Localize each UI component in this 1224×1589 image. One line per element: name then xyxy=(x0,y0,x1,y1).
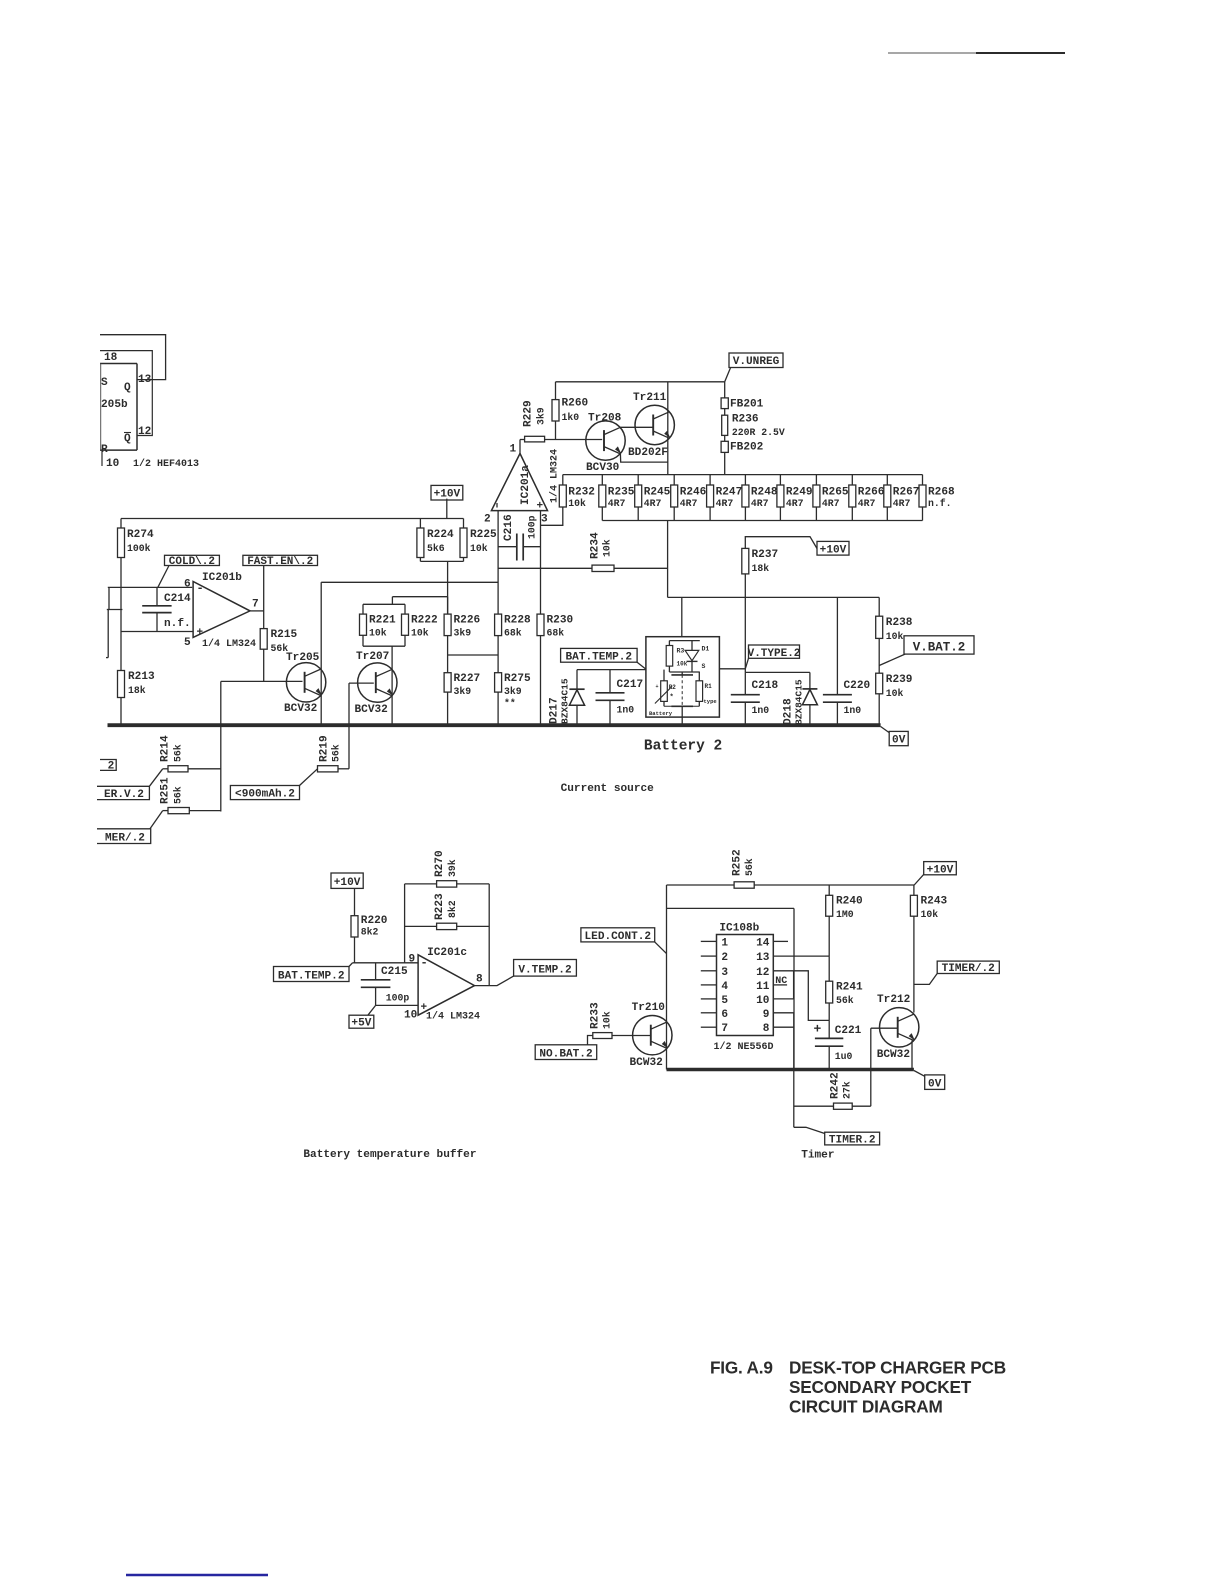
op-amp IC201b (1/4 LM324) xyxy=(184,572,259,650)
resistor R246 xyxy=(671,475,707,521)
resistor R239 xyxy=(876,673,913,724)
svg-text:R236: R236 xyxy=(732,414,759,426)
transistor Tr210 xyxy=(630,1002,673,1069)
svg-text:+10V: +10V xyxy=(334,877,361,889)
wire pin3 lead down to R230 xyxy=(540,511,542,614)
svg-text:1n0: 1n0 xyxy=(752,705,770,716)
svg-text:3k9: 3k9 xyxy=(454,686,472,697)
svg-text:TIMER/.2: TIMER/.2 xyxy=(942,963,995,975)
resistor R238 xyxy=(876,597,913,642)
svg-text:8: 8 xyxy=(763,1023,770,1035)
svg-text:R251: R251 xyxy=(160,777,172,804)
power +10V buffer xyxy=(331,873,363,916)
wire ladder bottom rail xyxy=(602,520,922,522)
svg-text:**: ** xyxy=(504,698,516,709)
svg-text:R247: R247 xyxy=(716,487,743,499)
wire pin9 stub xyxy=(773,1012,794,1014)
svg-text:5: 5 xyxy=(184,637,191,649)
svg-text:10: 10 xyxy=(404,1010,418,1022)
svg-text:1M0: 1M0 xyxy=(836,909,854,920)
svg-text:R226: R226 xyxy=(454,615,481,627)
net label V.BAT.2 xyxy=(879,636,974,666)
svg-text:R2: R2 xyxy=(669,684,677,691)
wire V.TYPE net xyxy=(719,669,810,673)
resistor R252 xyxy=(732,849,756,888)
svg-text:56k: 56k xyxy=(744,858,755,876)
svg-text:18k: 18k xyxy=(752,563,770,574)
wire V.UNREG top rail xyxy=(556,381,725,383)
svg-text:R228: R228 xyxy=(504,615,531,627)
svg-text:Battery temperature buffer: Battery temperature buffer xyxy=(303,1149,476,1161)
svg-text:18k: 18k xyxy=(128,685,146,696)
net label BAT.TEMP.2 buffer xyxy=(274,963,353,983)
svg-text:BCV30: BCV30 xyxy=(586,462,620,474)
svg-text:5k6: 5k6 xyxy=(427,543,445,554)
wire IC201b output xyxy=(250,610,264,612)
svg-text:FB202: FB202 xyxy=(730,442,763,454)
svg-text:8k2: 8k2 xyxy=(361,927,379,938)
svg-text:R260: R260 xyxy=(562,398,589,410)
net label MER/.2 (clipped) xyxy=(97,829,151,845)
wire R234 net xyxy=(498,567,667,569)
svg-text:4R7: 4R7 xyxy=(644,498,662,509)
svg-text:R249: R249 xyxy=(786,487,813,499)
svg-text:R3: R3 xyxy=(677,648,685,655)
svg-text:R220: R220 xyxy=(361,915,388,927)
svg-text:Tr212: Tr212 xyxy=(877,994,910,1006)
svg-text:V.TYPE.2: V.TYPE.2 xyxy=(748,648,801,660)
svg-text:68k: 68k xyxy=(504,628,522,639)
wire timer left rail xyxy=(666,885,668,1070)
svg-text:10k: 10k xyxy=(677,661,688,668)
svg-text:R242: R242 xyxy=(830,1072,842,1099)
wire mid horizontal rail xyxy=(668,596,880,598)
resistor R275 xyxy=(495,655,531,724)
svg-text:1/2 HEF4013: 1/2 HEF4013 xyxy=(133,458,199,470)
wire 0V bus (Battery 2) xyxy=(108,723,881,727)
power +5V xyxy=(349,1005,376,1029)
svg-text:R219: R219 xyxy=(319,735,331,762)
svg-text:S: S xyxy=(101,377,108,389)
ferrite bead FB202 xyxy=(721,435,763,474)
capacitor C214 xyxy=(142,587,191,631)
svg-text:n.f.: n.f. xyxy=(928,498,952,509)
svg-text:1/4 LM324: 1/4 LM324 xyxy=(426,1011,480,1023)
svg-text:4R7: 4R7 xyxy=(822,498,840,509)
svg-text:1k0: 1k0 xyxy=(562,412,580,423)
capacitor C217 xyxy=(596,670,644,724)
svg-text:10k: 10k xyxy=(470,543,488,554)
svg-text:Battery 2: Battery 2 xyxy=(644,739,722,755)
svg-text:Timer: Timer xyxy=(801,1150,834,1162)
svg-text:R213: R213 xyxy=(128,671,155,683)
IC108b outline box xyxy=(667,908,795,1069)
svg-text:3k9: 3k9 xyxy=(454,628,472,639)
resistor R230 xyxy=(537,614,573,724)
svg-text:68k: 68k xyxy=(547,628,565,639)
wire pin13 to R240/R241 node xyxy=(773,955,829,957)
wire R237 to V.TYPE junction xyxy=(744,597,746,668)
svg-text:-: - xyxy=(197,582,204,596)
power +10V timer xyxy=(914,862,956,885)
svg-text:C215: C215 xyxy=(381,966,408,978)
svg-text:100k: 100k xyxy=(127,543,151,554)
svg-text:R227: R227 xyxy=(454,673,481,685)
svg-text:10k: 10k xyxy=(921,909,939,920)
svg-text:4R7: 4R7 xyxy=(893,498,911,509)
thermistor R2 (battery internal) xyxy=(655,670,676,707)
op-amp IC201c (1/4 LM324) xyxy=(404,947,483,1023)
resistor R234 xyxy=(590,532,615,571)
svg-text:Current source: Current source xyxy=(561,783,655,795)
resistor R235 xyxy=(599,475,635,521)
resistor R237 xyxy=(742,537,817,598)
svg-text:R1: R1 xyxy=(705,683,713,690)
wire R221/R222 bottom rail xyxy=(363,645,405,647)
svg-text:C214: C214 xyxy=(164,593,191,605)
svg-text:BCV32: BCV32 xyxy=(355,704,388,716)
zener diode D218 (BZX84C15) xyxy=(783,672,818,725)
svg-text:4R7: 4R7 xyxy=(751,498,769,509)
svg-text:Q: Q xyxy=(124,382,131,394)
svg-text:TIMER.2: TIMER.2 xyxy=(829,1134,876,1146)
svg-text:10k: 10k xyxy=(886,688,904,699)
svg-text:IC108b: IC108b xyxy=(719,923,759,935)
resistor R260 xyxy=(552,382,588,440)
svg-text:type: type xyxy=(704,698,718,705)
wire pin10 input xyxy=(376,1004,419,1006)
resistor R233 xyxy=(588,1002,651,1045)
svg-text:8k2: 8k2 xyxy=(447,900,458,918)
wire pin6 input xyxy=(108,586,192,588)
wire R214/R251 junction vertical xyxy=(220,725,222,811)
svg-text:9: 9 xyxy=(763,1009,770,1021)
svg-text:BD202F: BD202F xyxy=(628,447,668,459)
svg-text:R267: R267 xyxy=(893,487,920,499)
wire R274 down to IC201b input xyxy=(120,558,122,671)
svg-text:2: 2 xyxy=(484,514,491,526)
svg-text:Tr210: Tr210 xyxy=(632,1002,666,1014)
svg-text:56k: 56k xyxy=(173,786,184,804)
wire pin14 stub xyxy=(773,940,788,942)
svg-text:S: S xyxy=(702,663,706,670)
resistor R247 xyxy=(707,475,743,521)
svg-text:NC: NC xyxy=(775,976,787,987)
svg-text:R274: R274 xyxy=(127,529,154,541)
resistor R221 xyxy=(360,604,396,646)
svg-text:4R7: 4R7 xyxy=(858,498,876,509)
svg-text:+: + xyxy=(814,1022,822,1037)
svg-text:FAST.EN\.2: FAST.EN\.2 xyxy=(247,556,313,568)
wire Tr207 collector/emitter vertical xyxy=(391,646,393,724)
svg-text:4R7: 4R7 xyxy=(716,498,734,509)
resistor R243 xyxy=(910,885,947,920)
wire Tr211 collector/emitter vertical xyxy=(667,382,669,475)
svg-text:BCW32: BCW32 xyxy=(630,1057,663,1069)
svg-text:R266: R266 xyxy=(858,487,885,499)
svg-text:1u0: 1u0 xyxy=(835,1051,853,1062)
resistor R251 xyxy=(150,777,221,829)
resistor R226 xyxy=(444,597,480,655)
svg-text:R234: R234 xyxy=(590,532,602,559)
svg-text:3: 3 xyxy=(541,514,548,526)
svg-text:R243: R243 xyxy=(921,896,948,908)
wire IC201c output xyxy=(475,976,514,986)
svg-text:9: 9 xyxy=(409,954,416,966)
svg-text:R239: R239 xyxy=(886,674,913,686)
net label V.TYPE.2 xyxy=(745,645,800,669)
wire R238-R239 link xyxy=(878,638,880,673)
svg-text:3k9: 3k9 xyxy=(536,407,547,425)
resistor R225 xyxy=(460,519,497,562)
resistor R241 xyxy=(826,956,863,1020)
IC IC108b (1/2 NE556D) xyxy=(701,923,774,1054)
battery cell symbol xyxy=(671,672,693,706)
wire ladder top rail xyxy=(563,474,923,476)
transistor Tr205 xyxy=(284,652,326,715)
svg-text:56k: 56k xyxy=(173,744,184,762)
svg-text:100p: 100p xyxy=(386,993,410,1004)
wire pin5 input xyxy=(121,631,193,633)
net label V.UNREG xyxy=(725,353,783,382)
svg-text:56k: 56k xyxy=(836,995,854,1006)
svg-text:SECONDARY POCKET: SECONDARY POCKET xyxy=(789,1377,972,1397)
resistor R224 xyxy=(417,519,454,562)
svg-text:Tr208: Tr208 xyxy=(588,413,622,425)
wire feedback right vertical xyxy=(488,884,490,986)
svg-text:4R7: 4R7 xyxy=(680,498,698,509)
svg-text:R245: R245 xyxy=(644,487,671,499)
wire Tr207 base xyxy=(349,683,374,769)
svg-text:BAT.TEMP.2: BAT.TEMP.2 xyxy=(566,651,633,663)
svg-text:14: 14 xyxy=(756,937,770,949)
net label FAST.EN\.2 xyxy=(243,555,318,611)
wire pin10 to pin12 net xyxy=(773,971,793,999)
svg-text:R265: R265 xyxy=(822,487,849,499)
svg-text:R270: R270 xyxy=(434,850,446,877)
resistor R249 xyxy=(777,475,813,521)
svg-text:V.TEMP.2: V.TEMP.2 xyxy=(518,965,571,977)
svg-text:11: 11 xyxy=(756,981,770,993)
resistor R242 xyxy=(794,1072,871,1109)
svg-text:FB201: FB201 xyxy=(730,399,764,411)
resistor R1 (battery internal) xyxy=(696,672,717,706)
svg-text:12: 12 xyxy=(138,426,151,438)
svg-text:5: 5 xyxy=(721,995,728,1007)
resistor R222 xyxy=(402,604,438,646)
net label TIMER/.2 xyxy=(914,961,999,984)
resistor R267 xyxy=(884,475,920,521)
svg-text:10k: 10k xyxy=(886,631,904,642)
svg-text:Battery: Battery xyxy=(649,710,673,717)
resistor R219 xyxy=(318,735,350,772)
wire battery temp net xyxy=(577,669,664,671)
wire Tr208 emitter xyxy=(620,454,667,462)
wire pin9/8 vertical to R242 and TIMER.2 xyxy=(793,1013,795,1128)
svg-text:8: 8 xyxy=(476,974,483,986)
power +10V mid xyxy=(817,541,849,556)
resistor R215 xyxy=(260,611,297,681)
resistor R245 xyxy=(635,475,671,521)
capacitor C220 xyxy=(823,597,871,724)
wire left edge jog xyxy=(106,587,122,657)
net label ER.V.2 (clipped) xyxy=(97,786,149,801)
wire R243 to Tr212 collector xyxy=(913,916,915,1012)
resistor R220 xyxy=(351,915,388,963)
svg-text:R230: R230 xyxy=(547,615,574,627)
page artifact line top-right xyxy=(888,52,976,54)
svg-text:39k: 39k xyxy=(447,859,458,877)
svg-text:1/4 LM324: 1/4 LM324 xyxy=(202,638,256,650)
svg-text:1n0: 1n0 xyxy=(617,705,635,716)
svg-text:FIG. A.9: FIG. A.9 xyxy=(710,1358,773,1378)
svg-text:12: 12 xyxy=(756,967,769,979)
wire pin8 stub xyxy=(773,1026,794,1028)
svg-text:R223: R223 xyxy=(434,893,446,920)
wire Tr212 emitter to bus xyxy=(911,1041,913,1070)
svg-text:R222: R222 xyxy=(411,615,438,627)
svg-text:n.f.: n.f. xyxy=(164,618,191,630)
wire feedback to R228 node xyxy=(321,581,498,583)
resistor R228 xyxy=(495,614,531,655)
flip-flop IC205b (1/2 HEF4013, clipped at page edge) xyxy=(100,352,199,470)
svg-text:1/2 NE556D: 1/2 NE556D xyxy=(714,1041,774,1053)
resistor R214 xyxy=(149,735,220,786)
resistor R265 xyxy=(813,475,849,521)
wire pin9 input xyxy=(353,962,419,964)
wire pin11 NC stub xyxy=(773,976,787,987)
svg-text:V.BAT.2: V.BAT.2 xyxy=(913,641,966,655)
svg-text:4R7: 4R7 xyxy=(786,498,804,509)
svg-text:10k: 10k xyxy=(602,539,613,557)
net label TIMER.2 xyxy=(794,1127,880,1146)
svg-text:10: 10 xyxy=(106,458,120,470)
wire R226/R228 bottom link xyxy=(448,654,499,656)
svg-text:R240: R240 xyxy=(836,896,863,908)
svg-text:56k: 56k xyxy=(331,744,342,762)
svg-text:R246: R246 xyxy=(680,487,707,499)
transistor Tr211 xyxy=(628,392,674,459)
svg-text:R275: R275 xyxy=(504,673,531,685)
svg-text:R241: R241 xyxy=(836,982,863,994)
transistor Tr212 xyxy=(877,994,919,1061)
svg-text:IC201c: IC201c xyxy=(427,947,467,959)
wire timer +10V rail xyxy=(667,884,915,886)
resistor R232 xyxy=(559,475,595,509)
wire feedback left vertical xyxy=(404,884,406,963)
svg-text:IC201b: IC201b xyxy=(202,572,242,584)
svg-text:10k: 10k xyxy=(411,628,429,639)
wire R221/R222 top rail xyxy=(363,603,405,605)
wire battery top lead xyxy=(681,597,683,640)
net label BAT.TEMP.2 xyxy=(561,648,647,669)
net label NO.BAT.2 xyxy=(535,1045,597,1061)
svg-text:BCV32: BCV32 xyxy=(284,703,317,715)
svg-text:R237: R237 xyxy=(752,549,779,561)
svg-text:BCW32: BCW32 xyxy=(877,1049,910,1061)
svg-text:Q: Q xyxy=(124,433,131,445)
svg-text:R268: R268 xyxy=(928,487,955,499)
svg-text:CIRCUIT DIAGRAM: CIRCUIT DIAGRAM xyxy=(789,1397,943,1417)
svg-text:27k: 27k xyxy=(842,1081,853,1099)
svg-text:BZX84C15: BZX84C15 xyxy=(560,678,571,724)
svg-text:0V: 0V xyxy=(892,735,906,747)
svg-text:DESK-TOP CHARGER PCB: DESK-TOP CHARGER PCB xyxy=(789,1358,1006,1378)
svg-text:+: + xyxy=(197,627,204,639)
svg-text:LED.CONT.2: LED.CONT.2 xyxy=(585,931,652,943)
svg-text:R221: R221 xyxy=(369,615,396,627)
wire pin12 to C221 node xyxy=(773,971,829,1021)
svg-text:C221: C221 xyxy=(835,1025,862,1037)
svg-text:R233: R233 xyxy=(590,1002,602,1029)
svg-text:R229: R229 xyxy=(523,400,535,427)
svg-text:D1: D1 xyxy=(702,646,710,653)
wire R224/R225 bottom rail xyxy=(420,561,463,614)
svg-text:R252: R252 xyxy=(732,849,744,876)
svg-text:+5V: +5V xyxy=(351,1018,371,1030)
svg-text:R224: R224 xyxy=(427,529,454,541)
svg-text:220R 2.5V: 220R 2.5V xyxy=(732,427,785,438)
svg-text:10k: 10k xyxy=(602,1011,613,1029)
transistor Tr208 xyxy=(586,413,625,475)
svg-text:R214: R214 xyxy=(160,735,172,762)
svg-text:+10V: +10V xyxy=(927,864,954,876)
svg-text:18: 18 xyxy=(104,352,118,364)
svg-text:NO.BAT.2: NO.BAT.2 xyxy=(539,1049,592,1061)
resistor R227 xyxy=(444,655,480,724)
capacitor C215 xyxy=(361,963,410,1006)
svg-text:<900mAh.2: <900mAh.2 xyxy=(235,789,295,801)
svg-text:Tr205: Tr205 xyxy=(286,652,320,664)
battery box (Battery 2) xyxy=(646,637,720,717)
svg-text:+10V: +10V xyxy=(820,544,847,556)
wire timer 0V bus xyxy=(667,1068,914,1071)
svg-text:COLD\.2: COLD\.2 xyxy=(169,556,215,568)
svg-text:7: 7 xyxy=(721,1023,728,1035)
svg-text:R248: R248 xyxy=(751,487,778,499)
svg-text:10: 10 xyxy=(756,995,770,1007)
svg-text:100p: 100p xyxy=(527,515,538,539)
svg-text:10k: 10k xyxy=(568,498,586,509)
figure title xyxy=(710,1358,1006,1417)
capacitor C218 xyxy=(731,672,779,724)
svg-text:13: 13 xyxy=(138,374,152,386)
net label COLD\.2 xyxy=(158,555,220,587)
wire +10V rail xyxy=(121,518,464,520)
svg-text:C216: C216 xyxy=(503,514,515,541)
resistor R274 xyxy=(118,519,154,558)
svg-text:R232: R232 xyxy=(568,487,595,499)
svg-text:7: 7 xyxy=(252,599,259,611)
svg-text:2: 2 xyxy=(721,952,728,964)
svg-text:10k: 10k xyxy=(369,628,387,639)
svg-text:3k9: 3k9 xyxy=(504,686,522,697)
svg-text:1: 1 xyxy=(721,937,728,949)
capacitor C216 xyxy=(498,514,540,560)
zener diode D217 (BZX84C15) xyxy=(549,670,585,724)
wire ladder to mid rail xyxy=(667,521,669,598)
svg-text:ER.V.2: ER.V.2 xyxy=(104,789,144,801)
net label V.TEMP.2 xyxy=(514,960,577,977)
svg-text:1: 1 xyxy=(510,444,517,456)
svg-text:2: 2 xyxy=(108,761,115,773)
svg-text:R235: R235 xyxy=(608,487,635,499)
svg-text:+: + xyxy=(656,684,659,690)
net label 0V xyxy=(881,727,909,747)
page artifact line bottom-left (blue) xyxy=(126,1574,268,1576)
svg-text:6: 6 xyxy=(721,1009,728,1021)
resistor R268 xyxy=(919,475,955,521)
